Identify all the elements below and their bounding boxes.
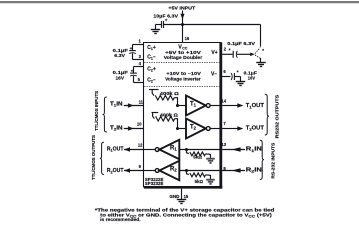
svg-text:SP3232E: SP3232E — [145, 181, 164, 186]
svg-text:V–: V– — [211, 71, 217, 77]
svg-text:0.1µF 6.3V: 0.1µF 6.3V — [227, 41, 256, 46]
svg-text:15: 15 — [184, 194, 189, 199]
svg-text:5kΩ: 5kΩ — [193, 155, 202, 160]
svg-text:7: 7 — [223, 121, 226, 126]
svg-text:T1IN: T1IN — [110, 101, 123, 107]
svg-text:Voltage Doubler: Voltage Doubler — [164, 55, 203, 60]
svg-text:R1OUT: R1OUT — [107, 146, 124, 152]
svg-text:11: 11 — [139, 99, 144, 104]
svg-text:3: 3 — [139, 54, 142, 59]
svg-text:GND: GND — [169, 194, 180, 199]
svg-text:T2OUT: T2OUT — [246, 125, 264, 131]
svg-text:10: 10 — [137, 122, 142, 127]
svg-text:+5V INPUT: +5V INPUT — [168, 5, 195, 10]
svg-text:6.3V: 6.3V — [114, 53, 126, 58]
svg-text:2: 2 — [224, 46, 227, 51]
svg-text:400k Ω: 400k Ω — [160, 91, 180, 96]
svg-text:10µF 6.3V: 10µF 6.3V — [153, 14, 179, 19]
svg-text:R1IN: R1IN — [246, 147, 263, 153]
svg-text:5: 5 — [138, 77, 141, 82]
svg-text:16: 16 — [185, 36, 190, 41]
svg-text:13: 13 — [221, 142, 226, 147]
svg-text:5kΩ: 5kΩ — [195, 179, 204, 184]
svg-text:RS232 OUTPUTS: RS232 OUTPUTS — [275, 95, 280, 139]
svg-text:*: * — [229, 48, 231, 53]
svg-text:9: 9 — [139, 164, 142, 169]
svg-text:400k Ω: 400k Ω — [160, 112, 179, 117]
svg-text:14: 14 — [221, 98, 226, 103]
svg-text:R2IN: R2IN — [246, 167, 263, 173]
svg-text:is recommended.: is recommended. — [100, 217, 141, 222]
svg-text:R1: R1 — [170, 145, 177, 151]
svg-text:6: 6 — [223, 69, 226, 74]
svg-text:12: 12 — [138, 143, 143, 148]
svg-text:T1: T1 — [190, 101, 197, 107]
svg-text:RS-232 INPUTS: RS-232 INPUTS — [270, 143, 275, 179]
svg-text:R2: R2 — [170, 166, 177, 172]
svg-text:*: * — [262, 48, 264, 53]
svg-text:T1OUT: T1OUT — [246, 103, 264, 109]
svg-text:V+: V+ — [211, 50, 217, 56]
svg-text:16V: 16V — [116, 75, 126, 80]
svg-text:16V: 16V — [248, 75, 256, 80]
svg-text:Voltage Inverter: Voltage Inverter — [165, 76, 201, 81]
svg-text:4: 4 — [139, 61, 142, 66]
svg-text:1: 1 — [138, 38, 141, 43]
svg-text:TTL/CMOS INPUTS: TTL/CMOS INPUTS — [94, 91, 99, 131]
svg-text:T2: T2 — [190, 124, 197, 130]
svg-text:*: * — [237, 70, 239, 75]
svg-text:T2IN: T2IN — [110, 125, 123, 131]
svg-text:TTL/CMOS OUTPUTS: TTL/CMOS OUTPUTS — [91, 135, 96, 180]
svg-text:R2OUT: R2OUT — [107, 168, 124, 174]
